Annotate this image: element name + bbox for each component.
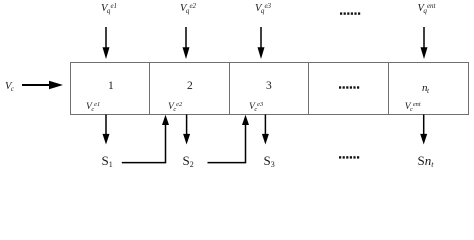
divider between cell 1 and 2 xyxy=(149,63,151,115)
top arrow into cell 1 xyxy=(105,27,107,49)
label Vq^e3 xyxy=(255,3,271,14)
cell number 1 xyxy=(108,80,114,92)
divider between cell 2 and 3 xyxy=(229,63,231,115)
label Vq^e2 xyxy=(180,3,196,14)
cell number 2 xyxy=(187,80,193,92)
feedback elbow S1 to cell 2 xyxy=(122,123,166,163)
output label S1 xyxy=(102,153,113,169)
output label S2 xyxy=(183,153,194,169)
main pipeline box xyxy=(71,63,469,115)
label Vc^e2 xyxy=(168,102,182,112)
cell ellipsis dots xyxy=(339,86,359,88)
output arrow S2 xyxy=(186,115,188,137)
top arrow into cell 3 xyxy=(260,27,262,49)
input arrow Vc xyxy=(22,84,51,86)
output arrow S1 xyxy=(105,115,107,137)
top arrow into cell 2 xyxy=(185,27,187,49)
label Vc^ent xyxy=(405,102,421,112)
cell label nt xyxy=(422,82,429,94)
schematic line art xyxy=(0,0,474,173)
top arrow into cell nt xyxy=(423,27,425,49)
label Vc input xyxy=(5,81,14,92)
label Vc^e1 xyxy=(86,102,100,112)
output label S3 xyxy=(264,153,275,169)
output arrow Snt xyxy=(423,115,425,137)
divider between cell 3 and dots cell xyxy=(308,63,310,115)
output label Snt xyxy=(418,153,434,169)
feedback elbow S2 to cell 3 xyxy=(208,123,246,163)
cell number 3 xyxy=(266,80,272,92)
label Vq^e1 xyxy=(101,3,117,14)
top ellipsis dots xyxy=(340,12,360,14)
output arrow S3 xyxy=(264,115,266,137)
label Vc^e3 xyxy=(249,102,263,112)
divider between dots cell and nt cell xyxy=(388,63,390,115)
label Vq^ent xyxy=(418,3,436,14)
bottom ellipsis dots xyxy=(339,156,359,158)
